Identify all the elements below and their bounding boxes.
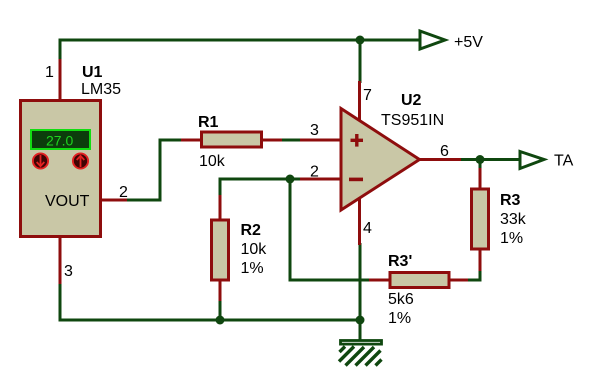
wire: +5V top rail xyxy=(60,39,420,42)
pin 4 stub xyxy=(358,197,361,245)
op-amp U2 TS951IN xyxy=(300,81,461,245)
svg-text:1%: 1% xyxy=(388,310,411,327)
svg-text:LM35: LM35 xyxy=(81,81,121,98)
svg-text:3: 3 xyxy=(64,263,73,280)
svg-text:4: 4 xyxy=(363,220,372,237)
pin 2 stub xyxy=(300,178,341,181)
button up xyxy=(73,153,88,168)
junction: ground rail to U2 pin 4 / ground symbol xyxy=(356,316,365,325)
pin 2 stub xyxy=(102,199,127,202)
svg-text:TA: TA xyxy=(554,153,574,170)
wire: U1 pin 3 down to ground rail xyxy=(59,283,62,322)
svg-text:+5V: +5V xyxy=(454,34,483,51)
junction: R2 bottom on ground rail xyxy=(216,316,225,325)
svg-text:R1: R1 xyxy=(198,114,219,131)
display xyxy=(31,130,90,149)
svg-text:7: 7 xyxy=(363,87,372,104)
svg-text:U1: U1 xyxy=(82,64,103,81)
wire: R1 right to U2 pin 3 xyxy=(280,139,302,142)
pin 3 stub xyxy=(300,139,341,142)
svg-text:6: 6 xyxy=(440,143,449,160)
svg-text:5k6: 5k6 xyxy=(388,291,414,308)
pin 7 stub xyxy=(358,81,361,122)
wire: U2 pin 6 output to TA terminal xyxy=(459,158,521,161)
svg-text:VOUT: VOUT xyxy=(45,193,90,210)
svg-text:R3': R3' xyxy=(388,253,412,270)
pin 1 stub xyxy=(59,59,62,100)
svg-text:R2: R2 xyxy=(241,222,262,239)
pin 6 stub xyxy=(418,158,461,161)
triangle body xyxy=(341,109,420,211)
wire: U2 pin 4 down through ground rail to ground symbol xyxy=(359,243,362,340)
svg-text:TS951IN: TS951IN xyxy=(381,112,444,129)
resistor R1 xyxy=(181,114,282,170)
pin 3 stub xyxy=(59,237,62,284)
svg-text:U2: U2 xyxy=(401,92,422,109)
resistor R3 xyxy=(472,168,527,271)
svg-text:2: 2 xyxy=(119,184,128,201)
button down xyxy=(33,153,48,168)
wire: feedback from inverting node down to R3' left xyxy=(290,179,372,280)
wire: output node down to R3 top xyxy=(479,160,482,171)
power terminal +5V xyxy=(420,31,483,51)
junction: +5V rail to U2 pin 7 xyxy=(356,36,365,45)
svg-text:1%: 1% xyxy=(500,230,523,247)
body xyxy=(21,101,101,237)
wire: left vertical drop to U1 pin 1 xyxy=(59,39,62,62)
svg-text:2: 2 xyxy=(310,164,319,181)
resistor R3' xyxy=(369,253,468,327)
svg-text:10k: 10k xyxy=(199,153,226,170)
svg-text:1%: 1% xyxy=(241,260,264,277)
node TA output terminal xyxy=(520,152,574,170)
svg-text:R3: R3 xyxy=(500,192,521,209)
junction: inverting input node xyxy=(286,175,295,184)
wire: drop from +5V rail to U2 pin 7 xyxy=(359,40,362,83)
wire: U1 pin 2 to R1 left xyxy=(126,140,183,200)
minus symbol xyxy=(349,178,363,182)
wire: R3' right corner up to R3 bottom xyxy=(466,270,480,280)
svg-text:3: 3 xyxy=(310,122,319,139)
sensor U1 LM35 xyxy=(21,59,129,284)
wire: R2 bottom lead to ground rail xyxy=(219,300,222,320)
plus symbol xyxy=(351,134,364,147)
wire: bottom ground rail xyxy=(60,319,360,322)
svg-text:33k: 33k xyxy=(500,211,527,228)
resistor R2 xyxy=(212,195,268,301)
wire: R2 top to U2 pin 2 xyxy=(220,179,302,197)
svg-text:1: 1 xyxy=(45,64,54,81)
ground xyxy=(339,341,382,366)
junction: output node to R3 xyxy=(476,155,485,164)
svg-text:27.0: 27.0 xyxy=(46,133,73,149)
svg-text:10k: 10k xyxy=(241,241,268,258)
